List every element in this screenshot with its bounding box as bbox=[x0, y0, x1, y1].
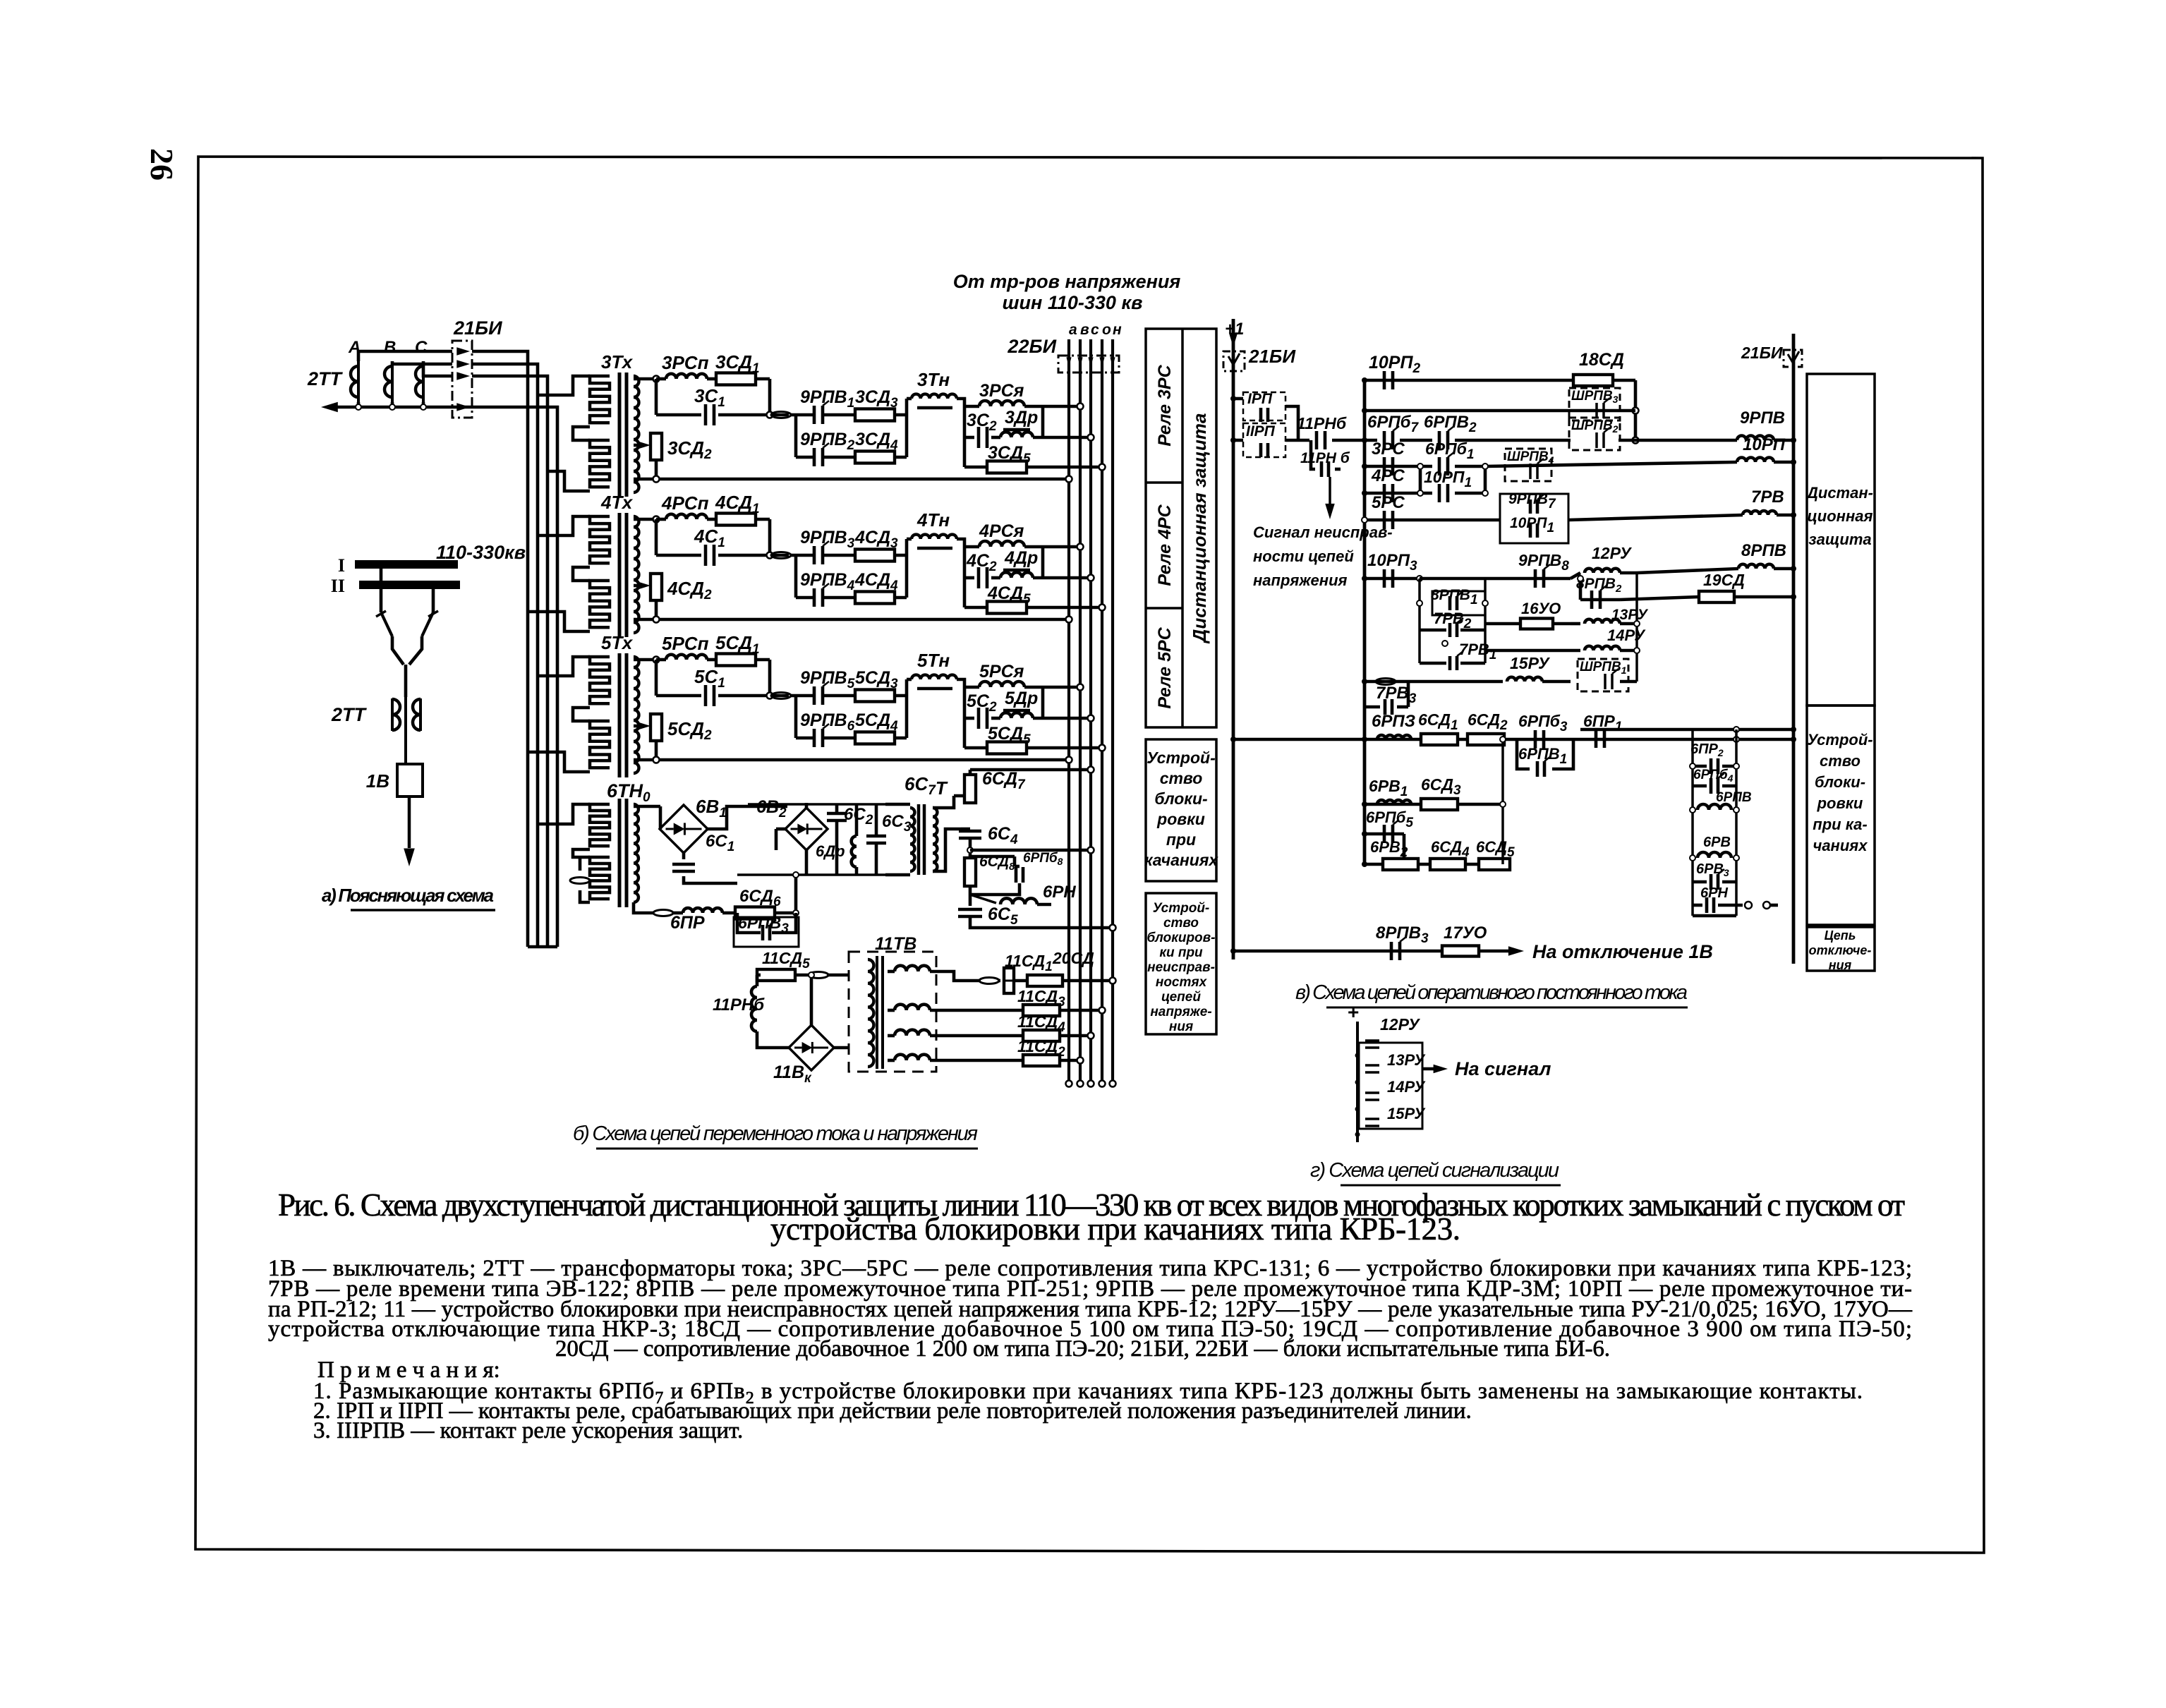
svg-text:4СД2: 4СД2 bbox=[667, 578, 712, 602]
svg-text:ство: ство bbox=[1163, 916, 1199, 931]
svg-text:4РС: 4РС bbox=[1371, 466, 1405, 485]
svg-text:7РВ: 7РВ bbox=[1751, 487, 1784, 507]
svg-text:110-330кв: 110-330кв bbox=[436, 542, 526, 563]
svg-text:6СД2: 6СД2 bbox=[1468, 710, 1508, 733]
svg-text:3С1: 3С1 bbox=[694, 385, 725, 410]
svg-text:Цепь: Цепь bbox=[1825, 928, 1856, 943]
svg-text:5РСп: 5РСп bbox=[662, 633, 709, 654]
svg-text:6В2: 6В2 bbox=[756, 797, 787, 820]
svg-text:8РПВ3: 8РПВ3 bbox=[1376, 923, 1429, 946]
svg-text:6ПР: 6ПР bbox=[670, 913, 705, 933]
svg-text:На сигнал: На сигнал bbox=[1455, 1058, 1551, 1079]
svg-text:о: о bbox=[1102, 322, 1111, 338]
svg-text:6РВ: 6РВ bbox=[1703, 835, 1731, 850]
svg-text:2ТТ: 2ТТ bbox=[307, 368, 344, 389]
svg-text:в: в bbox=[1080, 322, 1089, 338]
svg-text:3С2: 3С2 bbox=[967, 411, 997, 434]
svg-text:ШРПВ3: ШРПВ3 bbox=[1571, 389, 1619, 405]
svg-text:6РПб8: 6РПб8 bbox=[1023, 851, 1063, 867]
svg-text:ния: ния bbox=[1829, 958, 1852, 972]
svg-text:устройства блокировки при кача: устройства блокировки при качаниях типа … bbox=[770, 1211, 1460, 1247]
svg-text:ки при: ки при bbox=[1159, 945, 1203, 960]
svg-text:21БИ: 21БИ bbox=[453, 317, 502, 339]
svg-text:+: + bbox=[1348, 1001, 1359, 1023]
svg-text:ностях: ностях bbox=[1156, 975, 1208, 990]
svg-text:блоки-: блоки- bbox=[1154, 789, 1207, 808]
svg-text:I: I bbox=[338, 555, 345, 576]
svg-text:6СД5: 6СД5 bbox=[1476, 838, 1515, 860]
svg-text:6СД1: 6СД1 bbox=[1418, 710, 1458, 733]
svg-text:6В1: 6В1 bbox=[696, 796, 727, 820]
svg-text:6РН: 6РН bbox=[1700, 885, 1728, 901]
svg-text:ровки: ровки bbox=[1156, 810, 1205, 828]
svg-text:блокиров-: блокиров- bbox=[1147, 931, 1216, 945]
svg-text:11РН б: 11РН б bbox=[1300, 450, 1350, 466]
svg-text:26: 26 bbox=[144, 148, 180, 181]
svg-text:цепей: цепей bbox=[1161, 990, 1201, 1005]
svg-text:5СД1: 5СД1 bbox=[715, 632, 760, 657]
svg-text:а: а bbox=[1069, 322, 1077, 338]
svg-text:ство: ство bbox=[1820, 752, 1861, 770]
svg-text:ШРПВ4: ШРПВ4 bbox=[1507, 449, 1554, 466]
svg-text:На отключение 1В: На отключение 1В bbox=[1532, 941, 1713, 962]
svg-text:3СД2: 3СД2 bbox=[667, 437, 712, 462]
svg-text:3Др: 3Др bbox=[1005, 408, 1038, 428]
svg-text:4Тх: 4Тх bbox=[600, 492, 634, 513]
svg-text:6СД3: 6СД3 bbox=[1421, 775, 1461, 798]
svg-text:12РУ: 12РУ bbox=[1380, 1015, 1421, 1034]
svg-text:9РПВ: 9РПВ bbox=[1740, 408, 1785, 428]
svg-text:напряже-: напряже- bbox=[1150, 1005, 1211, 1019]
svg-text:3СД3: 3СД3 bbox=[855, 387, 898, 411]
svg-text:4Др: 4Др bbox=[1004, 548, 1038, 568]
svg-text:с: с bbox=[1091, 322, 1099, 338]
svg-text:13РУ: 13РУ bbox=[1611, 607, 1649, 623]
svg-text:12РУ: 12РУ bbox=[1592, 544, 1633, 562]
svg-text:16УО: 16УО bbox=[1521, 600, 1561, 617]
svg-text:4СД3: 4СД3 bbox=[854, 528, 898, 551]
svg-text:6Др: 6Др bbox=[816, 842, 845, 860]
svg-text:5С1: 5С1 bbox=[694, 666, 725, 691]
svg-text:защита: защита bbox=[1808, 531, 1871, 548]
svg-text:20СД — сопротивление добавочн: 20СД — сопротивление добавочное 1 200 ом… bbox=[555, 1336, 1610, 1362]
svg-text:С: С bbox=[415, 338, 428, 357]
svg-text:6С5: 6С5 bbox=[988, 904, 1018, 928]
svg-text:4Тн: 4Тн bbox=[916, 509, 950, 531]
svg-text:9РПВ5: 9РПВ5 bbox=[800, 668, 855, 691]
svg-text:г) Схема цепей сигнализации: г) Схема цепей сигнализации bbox=[1310, 1159, 1559, 1182]
svg-text:10РП2: 10РП2 bbox=[1369, 353, 1420, 376]
svg-text:19СД: 19СД bbox=[1703, 571, 1745, 589]
svg-text:4СД1: 4СД1 bbox=[715, 492, 760, 516]
svg-text:11РНб: 11РНб bbox=[1297, 414, 1347, 432]
svg-text:3РСя: 3РСя bbox=[979, 381, 1024, 401]
svg-text:6С2: 6С2 bbox=[844, 805, 873, 828]
svg-text:5Др: 5Др bbox=[1005, 689, 1038, 708]
svg-text:21БИ: 21БИ bbox=[1248, 346, 1296, 367]
svg-text:22БИ: 22БИ bbox=[1007, 336, 1056, 357]
svg-text:качаниях: качаниях bbox=[1144, 851, 1219, 869]
svg-text:при: при bbox=[1166, 830, 1196, 849]
svg-text:4С1: 4С1 bbox=[694, 526, 725, 550]
svg-text:3РСп: 3РСп bbox=[662, 352, 709, 373]
svg-text:чаниях: чаниях bbox=[1813, 837, 1868, 854]
svg-text:17УО: 17УО bbox=[1444, 923, 1487, 943]
svg-text:5С2: 5С2 bbox=[967, 691, 997, 715]
svg-text:6РВ1: 6РВ1 bbox=[1369, 777, 1408, 799]
svg-text:5СД3: 5СД3 bbox=[855, 668, 898, 691]
svg-text:4СД4: 4СД4 bbox=[854, 570, 898, 593]
svg-text:2ТТ: 2ТТ bbox=[331, 704, 368, 725]
svg-text:6С7Т: 6С7Т bbox=[904, 773, 948, 799]
svg-text:1В: 1В bbox=[366, 770, 389, 792]
svg-text:4РСп: 4РСп bbox=[661, 492, 709, 514]
svg-text:18СД: 18СД bbox=[1579, 350, 1624, 370]
svg-text:5Тх: 5Тх bbox=[601, 632, 634, 653]
svg-text:IIРП: IIРП bbox=[1246, 423, 1276, 440]
svg-text:ство: ство bbox=[1160, 769, 1203, 787]
svg-text:ШРПВ1: ШРПВ1 bbox=[1580, 660, 1627, 676]
svg-text:5РС: 5РС bbox=[1372, 493, 1405, 512]
svg-text:при ка-: при ка- bbox=[1813, 816, 1867, 833]
svg-text:Реле 5РС: Реле 5РС bbox=[1155, 626, 1175, 708]
svg-text:6РПЗ: 6РПЗ bbox=[1372, 712, 1415, 731]
svg-text:5Тн: 5Тн bbox=[917, 650, 950, 671]
svg-text:21БИ: 21БИ bbox=[1741, 344, 1783, 362]
svg-text:5РСя: 5РСя bbox=[979, 662, 1024, 682]
svg-text:б) Схема цепей переменного: б) Схема цепей переменного тока и напряж… bbox=[573, 1122, 978, 1145]
svg-text:3РС: 3РС bbox=[1372, 440, 1405, 459]
svg-text:3Тх: 3Тх bbox=[601, 351, 634, 373]
svg-text:9РПВ3: 9РПВ3 bbox=[800, 528, 855, 551]
svg-text:6РПВ1: 6РПВ1 bbox=[1518, 745, 1567, 767]
svg-text:6РН: 6РН bbox=[1043, 883, 1076, 902]
svg-text:ционная: ционная bbox=[1808, 507, 1873, 525]
svg-text:ности цепей: ности цепей bbox=[1253, 547, 1354, 565]
svg-text:В: В bbox=[384, 338, 396, 357]
svg-text:6РПВ2: 6РПВ2 bbox=[1424, 413, 1477, 435]
svg-text:Реле 3РС: Реле 3РС bbox=[1155, 364, 1175, 446]
svg-text:3СД1: 3СД1 bbox=[715, 351, 760, 376]
svg-text:блоки-: блоки- bbox=[1815, 773, 1865, 791]
svg-text:13РУ: 13РУ bbox=[1387, 1051, 1426, 1069]
svg-text:неисправ-: неисправ- bbox=[1147, 960, 1215, 975]
svg-text:6РПб1: 6РПб1 bbox=[1425, 440, 1475, 462]
svg-text:6СД7: 6СД7 bbox=[982, 769, 1026, 792]
svg-text:3Тн: 3Тн bbox=[917, 369, 950, 390]
svg-text:Устрой-: Устрой- bbox=[1146, 749, 1215, 767]
svg-text:6ТН0: 6ТН0 bbox=[607, 780, 651, 805]
svg-text:5СД2: 5СД2 bbox=[667, 718, 712, 743]
svg-text:Устрой-: Устрой- bbox=[1153, 901, 1210, 916]
svg-text:4С2: 4С2 bbox=[966, 551, 997, 574]
svg-text:ния: ния bbox=[1169, 1019, 1193, 1034]
svg-text:10РП: 10РП bbox=[1743, 435, 1786, 454]
svg-text:10РП1: 10РП1 bbox=[1510, 515, 1554, 535]
svg-text:6РВ3: 6РВ3 bbox=[1696, 861, 1729, 878]
svg-text:8РПВ: 8РПВ bbox=[1741, 541, 1786, 560]
svg-text:3. IIIРПВ — контакт реле уск: 3. IIIРПВ — контакт реле ускорения защит… bbox=[313, 1418, 743, 1443]
svg-text:IРП: IРП bbox=[1247, 391, 1273, 407]
svg-text:ШРПВ2: ШРПВ2 bbox=[1571, 418, 1619, 435]
svg-text:6РПб5: 6РПб5 bbox=[1366, 808, 1413, 830]
svg-text:шин 110-330 кв: шин 110-330 кв bbox=[1003, 292, 1143, 313]
svg-text:20СД: 20СД bbox=[1052, 949, 1094, 967]
svg-text:6С4: 6С4 bbox=[988, 824, 1018, 847]
svg-text:9РПВ1: 9РПВ1 bbox=[800, 387, 854, 411]
svg-text:15РУ: 15РУ bbox=[1510, 654, 1551, 672]
svg-text:7РВ2: 7РВ2 bbox=[1434, 610, 1472, 631]
svg-text:3СД4: 3СД4 bbox=[855, 430, 898, 453]
svg-text:II: II bbox=[331, 576, 345, 596]
svg-text:11РНб: 11РНб bbox=[713, 995, 765, 1014]
svg-text:6РПВ: 6РПВ bbox=[1716, 790, 1752, 805]
svg-text:Дистан-: Дистан- bbox=[1805, 484, 1873, 502]
svg-text:6РПб4: 6РПб4 bbox=[1693, 768, 1734, 784]
svg-text:7РВ3: 7РВ3 bbox=[1376, 684, 1417, 706]
svg-text:Сигнал неисправ-: Сигнал неисправ- bbox=[1253, 523, 1393, 541]
svg-text:Дистанционная защита: Дистанционная защита bbox=[1189, 413, 1210, 644]
svg-text:6СД4: 6СД4 bbox=[1431, 838, 1470, 860]
svg-text:5СД4: 5СД4 bbox=[855, 710, 898, 734]
svg-text:а) Поясняющая схема: а) Поясняющая схема bbox=[322, 885, 494, 906]
svg-text:9РПВ4: 9РПВ4 bbox=[800, 570, 855, 593]
svg-text:6С1: 6С1 bbox=[706, 832, 734, 854]
svg-text:9РПВ2: 9РПВ2 bbox=[800, 430, 855, 453]
svg-text:От тр-ров напряжения: От тр-ров напряжения bbox=[953, 271, 1181, 292]
svg-text:ровки: ровки bbox=[1817, 794, 1863, 812]
svg-text:6ПР2: 6ПР2 bbox=[1690, 741, 1724, 758]
svg-text:14РУ: 14РУ bbox=[1607, 626, 1646, 644]
svg-text:15РУ: 15РУ bbox=[1387, 1105, 1426, 1122]
svg-text:14РУ: 14РУ bbox=[1387, 1078, 1426, 1096]
svg-text:н: н bbox=[1113, 322, 1122, 338]
svg-text:6С3: 6С3 bbox=[882, 812, 912, 835]
svg-text:напряжения: напряжения bbox=[1253, 571, 1348, 589]
svg-text:отключе-: отключе- bbox=[1809, 943, 1872, 957]
svg-text:Устрой-: Устрой- bbox=[1807, 731, 1872, 749]
svg-text:4РСя: 4РСя bbox=[979, 521, 1024, 541]
svg-text:8РПВ1: 8РПВ1 bbox=[1431, 587, 1478, 607]
svg-text:Реле 4РС: Реле 4РС bbox=[1155, 504, 1175, 586]
svg-text:9РПВ6: 9РПВ6 bbox=[800, 710, 855, 734]
